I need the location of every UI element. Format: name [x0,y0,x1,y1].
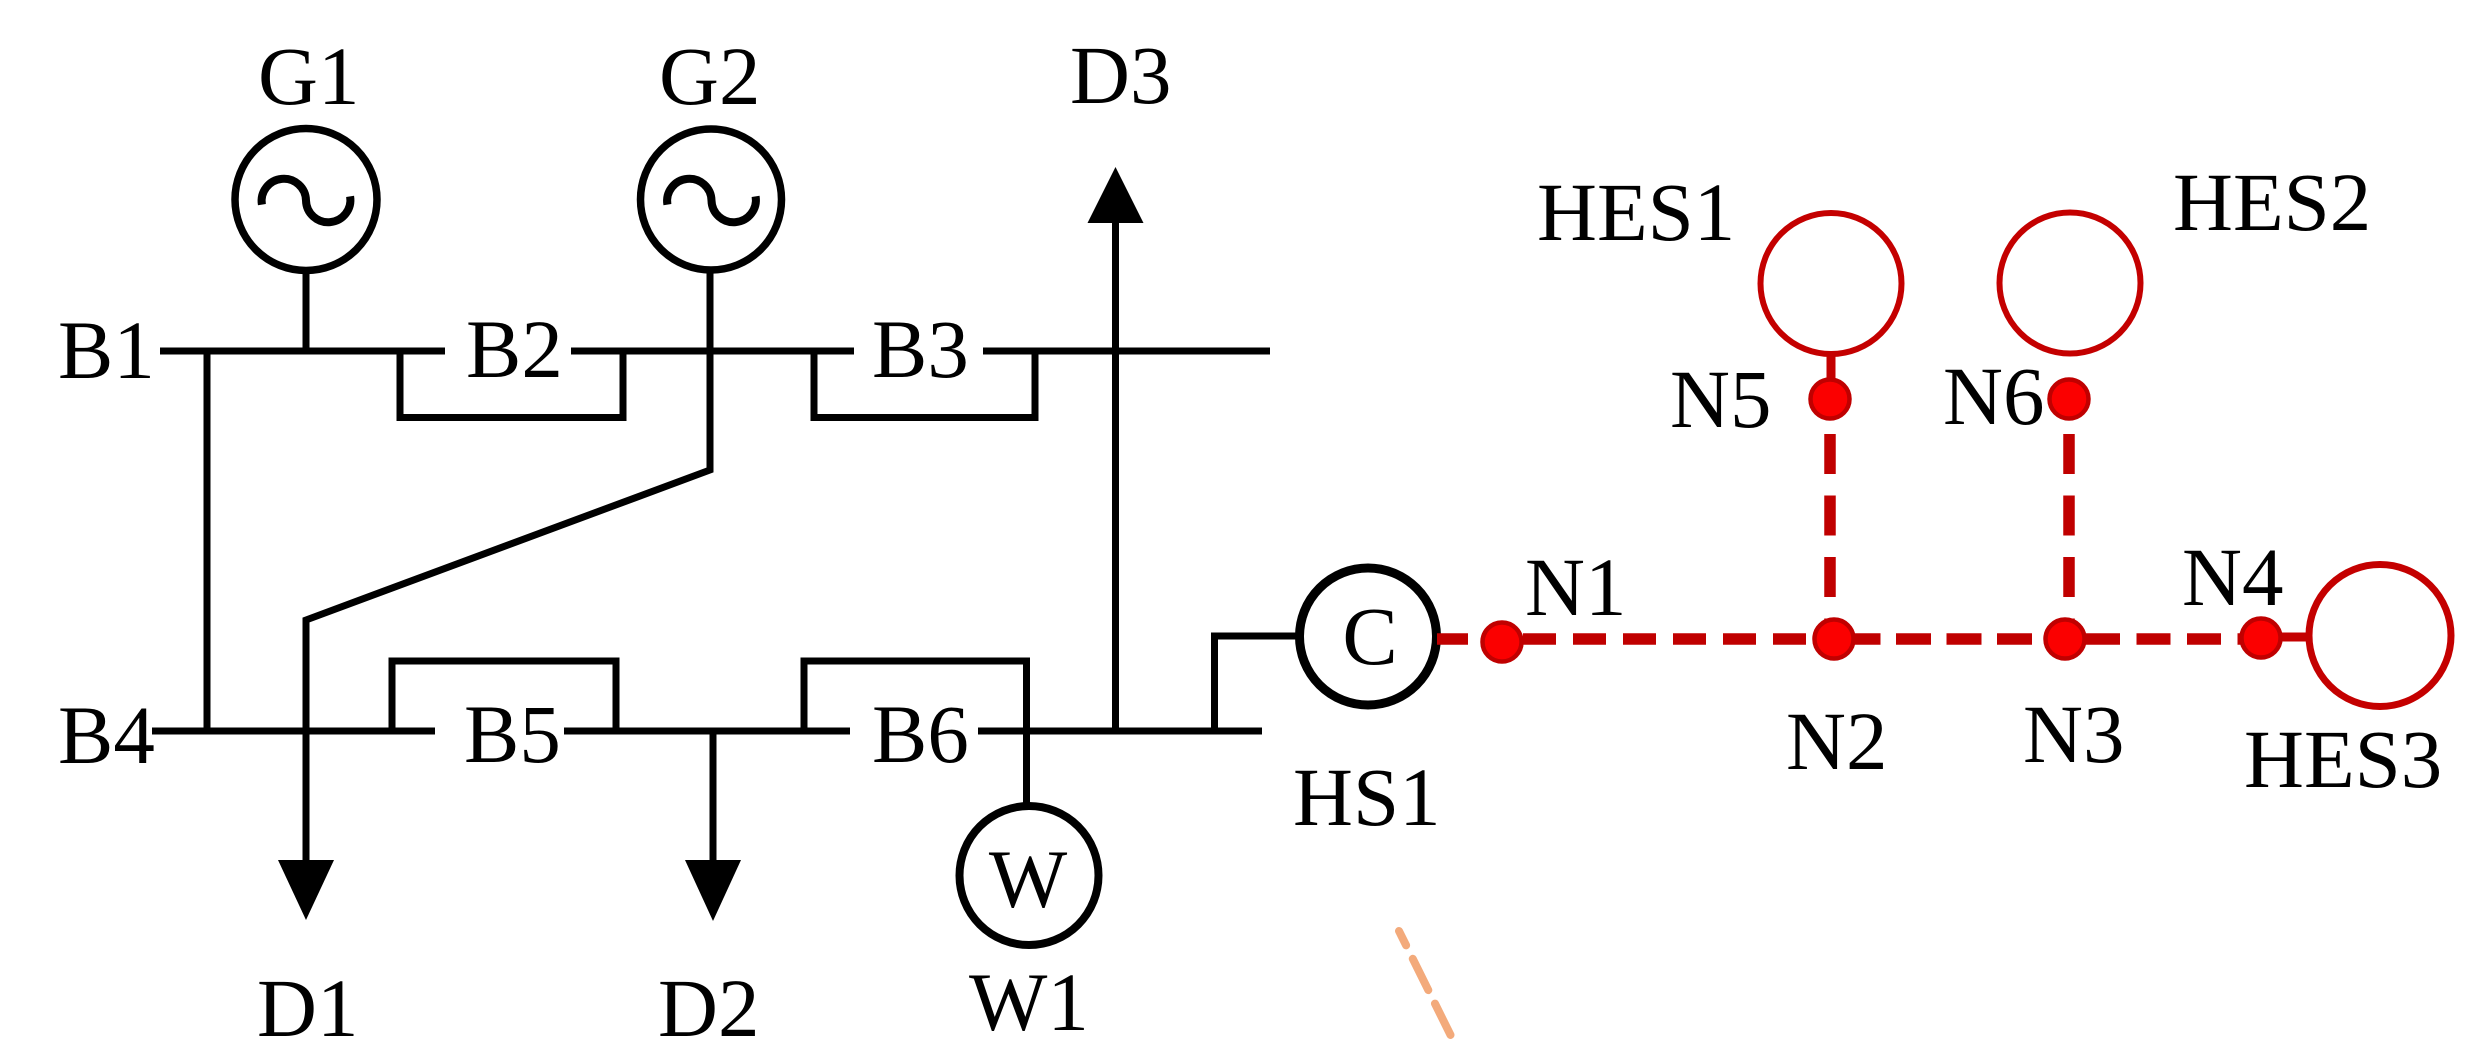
load D3 [1112,222,1119,731]
svg-text:B3: B3 [872,303,969,395]
wire HS1 step to compressor [1215,636,1300,731]
svg-text:HES3: HES3 [2244,713,2442,805]
bus B6 [978,728,1262,735]
wire B1-B4 [204,351,211,731]
node N5 [1811,380,1850,419]
stray orange dashed mark [1399,931,1454,1042]
svg-text:G1: G1 [258,30,359,122]
generator G1 [303,268,310,351]
svg-text:N5: N5 [1670,353,1771,445]
svg-text:D2: D2 [658,962,759,1047]
svg-text:HES1: HES1 [1537,166,1735,258]
load D2 [710,731,717,861]
svg-text:N4: N4 [2182,531,2283,623]
wire tie B5-B6 and W1 drop [804,661,1027,806]
node N6 [2050,380,2089,419]
svg-text:B6: B6 [872,688,969,780]
svg-text:B1: B1 [58,304,155,396]
svg-text:HS1: HS1 [1293,751,1441,843]
HES1 storage circle [1761,213,1902,354]
pipeline dashed N1-N2 [1523,633,1834,645]
svg-text:HES2: HES2 [2173,156,2371,248]
bus B3 [983,348,1270,355]
svg-text:B4: B4 [58,689,155,781]
pipeline branch N2-N5 dashed [1824,434,1836,639]
generator G2 [641,129,782,270]
compressor C (HS1) [1300,568,1437,705]
svg-text:W: W [989,833,1068,925]
node N4 [2242,619,2281,658]
svg-text:D1: D1 [257,962,358,1047]
svg-text:B2: B2 [466,303,563,395]
bus B2 [571,348,854,355]
bus B4 [152,728,435,735]
pipeline dash C to N1 [1437,633,1468,645]
svg-text:D3: D3 [1070,29,1171,121]
node N1 [1483,623,1522,662]
pipeline branch N3-N6 dashed [2063,434,2075,639]
bus B5 [564,728,850,735]
svg-text:N1: N1 [1525,541,1626,633]
wire tie B1-B2 [400,351,623,418]
svg-text:C: C [1342,590,1397,682]
load D1 arrow [278,860,334,920]
svg-text:N2: N2 [1786,695,1887,787]
wire G2 to B4/D1 [306,269,710,861]
svg-text:B5: B5 [464,688,561,780]
pipeline dashed N2-N3 [1846,633,2066,645]
node N2 [1815,620,1854,659]
svg-text:G2: G2 [659,30,760,122]
wire HES1 to N5 [1827,354,1836,390]
svg-text:N6: N6 [1943,350,2044,442]
bus B1 [160,348,445,355]
wind generator W1 [960,806,1099,945]
node N3 [2046,620,2085,659]
wire tie B4-B5 [392,661,616,731]
HES2 storage circle [2000,213,2141,354]
pipeline dashed N3-N4 [2086,633,2261,645]
wire tie B2-B3 [814,351,1035,418]
svg-text:N3: N3 [2023,688,2124,780]
wire N4 to HES3 [2280,633,2312,642]
HES3 storage circle [2309,565,2451,707]
svg-text:W1: W1 [969,956,1089,1047]
